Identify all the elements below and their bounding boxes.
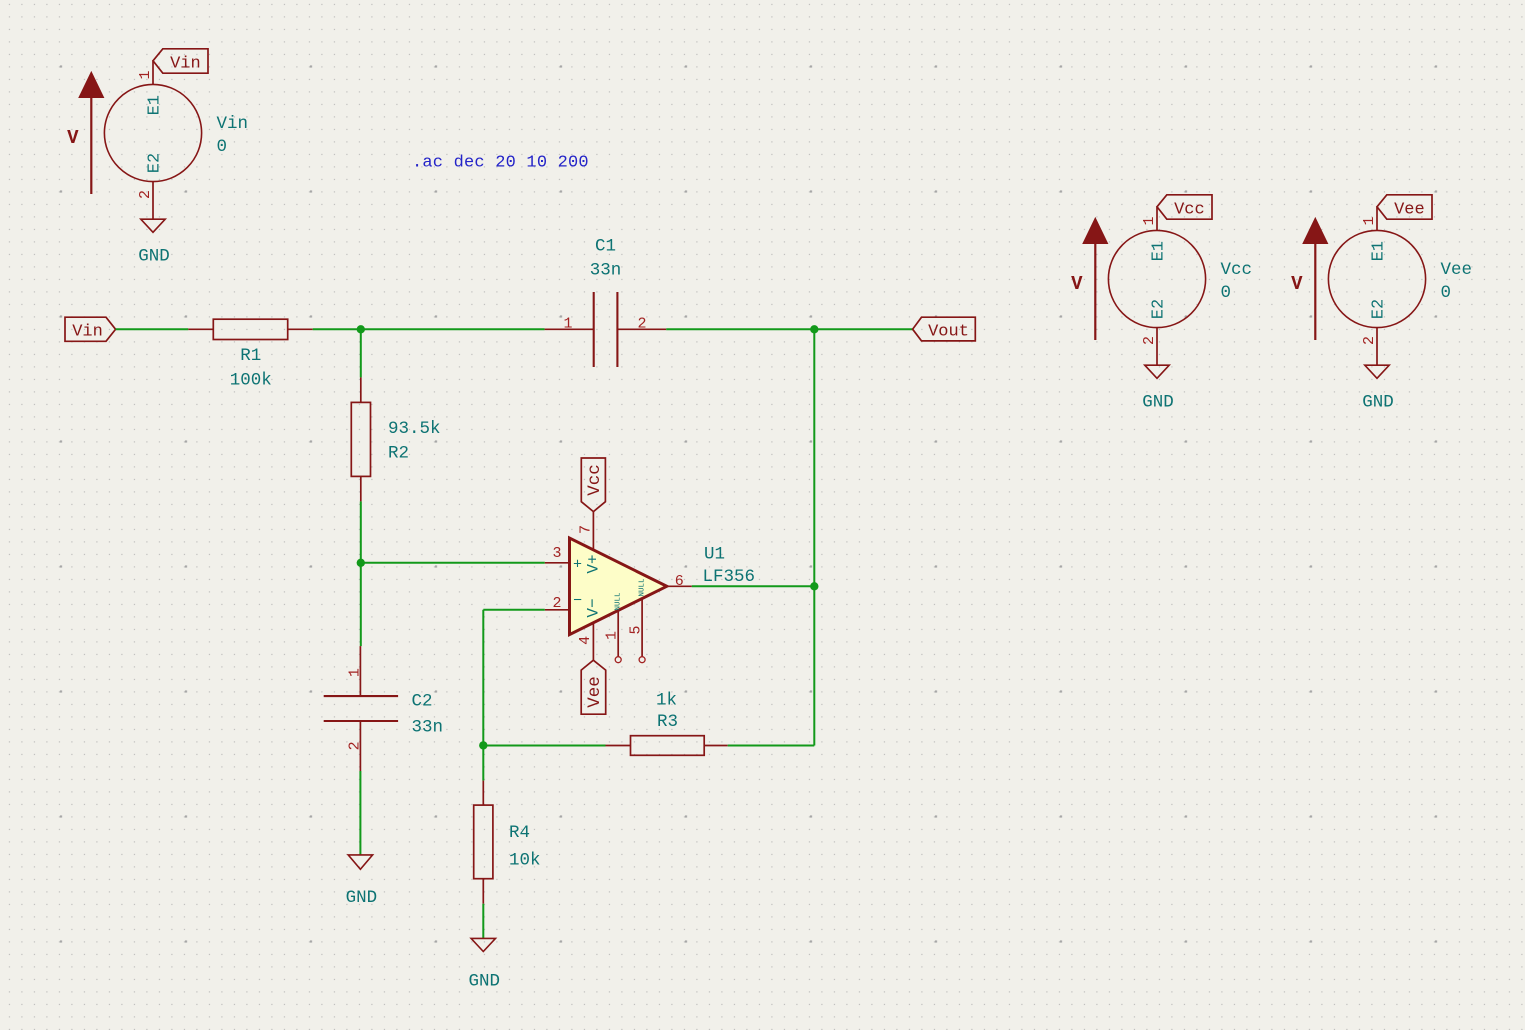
label LF356 [703, 567, 756, 587]
label 10k [509, 851, 541, 871]
resistor R2 [351, 377, 370, 501]
resistor R4 [474, 781, 493, 904]
simulation directive text [412, 154, 589, 173]
svg-text:Vin: Vin [217, 114, 249, 134]
C2 pin 2 number [347, 741, 364, 750]
svg-text:100k: 100k [230, 370, 272, 390]
wire node C to R4 [482, 745, 484, 780]
global label Vout (output flag) [913, 317, 976, 341]
voltage source Vin pin 1 [137, 60, 154, 84]
C2 pin 1 number [347, 668, 364, 677]
svg-text:1: 1 [604, 631, 621, 640]
svg-text:.ac dec 20 10 200: .ac dec 20 10 200 [412, 154, 589, 173]
value field 0 [1221, 283, 1232, 303]
label 33n (C1) [590, 261, 622, 281]
svg-text:GND: GND [469, 972, 501, 992]
svg-text:−: − [573, 593, 582, 610]
label 1k [656, 690, 677, 710]
junction node C [479, 741, 487, 749]
svg-text:2: 2 [1141, 336, 1158, 345]
svg-text:33n: 33n [590, 261, 622, 281]
C1 pin 2 number [637, 315, 646, 332]
value field 0 [1441, 283, 1452, 303]
svg-text:LF356: LF356 [703, 567, 756, 587]
wire opamp out to vertical [692, 585, 815, 587]
svg-text:V−: V− [585, 598, 603, 617]
arrow letter V [67, 127, 79, 149]
label 93.5k [388, 419, 441, 439]
svg-text:R4: R4 [509, 823, 530, 843]
reference field Vin [217, 114, 249, 134]
svg-text:Vee: Vee [1441, 260, 1473, 280]
wire vertical output node [813, 329, 815, 745]
arrow letter V [1291, 273, 1303, 295]
svg-text:E2: E2 [1150, 299, 1169, 319]
svg-text:C2: C2 [412, 692, 433, 712]
svg-text:1: 1 [1141, 216, 1158, 225]
svg-text:Vcc: Vcc [1174, 201, 1205, 220]
svg-text:GND: GND [1362, 393, 1394, 413]
voltage source Vee (symbol circle) [1328, 230, 1425, 327]
svg-text:Vout: Vout [928, 323, 969, 342]
label R4 [509, 823, 530, 843]
svg-text:1: 1 [137, 70, 154, 79]
svg-text:1: 1 [1361, 216, 1378, 225]
svg-text:E1: E1 [1370, 241, 1389, 261]
svg-text:33n: 33n [412, 718, 444, 738]
voltage arrow of Vin [79, 72, 104, 194]
op-amp - input marker [573, 593, 582, 610]
svg-text:Vin: Vin [170, 55, 201, 74]
reference field Vcc [1221, 260, 1253, 280]
svg-text:1: 1 [347, 668, 364, 677]
svg-text:E2: E2 [1370, 299, 1389, 319]
voltage source Vcc pin 1 [1141, 206, 1158, 230]
pin name E1 [1150, 241, 1169, 261]
svg-text:NULL: NULL [615, 592, 623, 611]
wire R2 to node B [360, 501, 362, 562]
svg-text:GND: GND [138, 247, 170, 267]
label 100k [230, 370, 272, 390]
ground label GND (C2) [346, 888, 378, 908]
svg-text:V: V [1291, 273, 1303, 295]
label C2 [412, 692, 433, 712]
op-amp pin 1 (NULL) [604, 610, 622, 662]
global label Vee (flag) [1377, 195, 1432, 220]
junction node B [357, 559, 365, 567]
C1 pin 1 number [563, 315, 572, 332]
svg-text:0: 0 [1221, 283, 1232, 303]
svg-text:Vee: Vee [585, 676, 605, 708]
svg-text:2: 2 [552, 595, 561, 612]
label 33n (C2) [412, 718, 444, 738]
capacitor C2 [324, 646, 398, 771]
op-amp U1 body [570, 538, 667, 635]
svg-text:GND: GND [346, 888, 378, 908]
svg-text:0: 0 [1441, 283, 1452, 303]
svg-text:Vin: Vin [72, 323, 103, 342]
label R2 [388, 443, 409, 463]
ground net label GND [138, 247, 170, 267]
voltage arrow of Vee [1303, 218, 1328, 340]
svg-text:2: 2 [137, 190, 154, 199]
junction node A [357, 325, 365, 333]
wire R3 to output vertical [728, 745, 815, 747]
value field 0 [217, 137, 228, 157]
label C1 [595, 236, 616, 256]
svg-text:NULL: NULL [639, 578, 647, 597]
op-amp pin 7 (V+) [578, 512, 595, 550]
wire C2 to ground [359, 771, 361, 855]
wire Vin to R1 [116, 328, 189, 330]
voltage source Vcc (symbol circle) [1108, 230, 1205, 327]
op-amp V- pin name [585, 598, 603, 617]
svg-text:E1: E1 [1150, 241, 1169, 261]
ground symbol below Vcc [1145, 365, 1169, 378]
svg-text:V: V [67, 127, 79, 149]
op-amp pin 5 (NULL) [628, 598, 646, 662]
svg-text:Vee: Vee [1394, 201, 1425, 220]
ground net label GND [1362, 393, 1394, 413]
svg-text:V+: V+ [585, 554, 603, 573]
ground symbol below C2 [348, 855, 372, 869]
junction node Vout top [810, 325, 818, 333]
pin name E2 [1370, 299, 1389, 319]
ground symbol below R4 [471, 938, 495, 951]
voltage arrow of Vcc [1083, 218, 1108, 340]
capacitor C1 [545, 292, 667, 367]
voltage source Vee pin 1 [1361, 206, 1378, 230]
op-amp pin 3 (+) [545, 545, 570, 563]
svg-text:C1: C1 [595, 236, 616, 256]
svg-text:6: 6 [675, 573, 684, 590]
svg-text:93.5k: 93.5k [388, 419, 441, 439]
wire node B down to C2 [360, 563, 362, 646]
op-amp pin 6 (out) [667, 573, 692, 590]
svg-text:R2: R2 [388, 443, 409, 463]
voltage source Vin pin 2 [137, 182, 154, 220]
svg-text:4: 4 [577, 636, 594, 645]
reference field Vee [1441, 260, 1473, 280]
op-amp + input marker [573, 557, 582, 574]
label R3 [657, 712, 678, 732]
svg-text:10k: 10k [509, 851, 541, 871]
arrow letter V [1071, 273, 1083, 295]
svg-text:0: 0 [217, 137, 228, 157]
global label Vee (op-amp supply) [581, 660, 606, 714]
voltage source Vcc pin 2 [1141, 328, 1158, 366]
label U1 [704, 545, 725, 565]
svg-text:R1: R1 [240, 346, 261, 366]
resistor R1 [188, 319, 312, 339]
svg-text:2: 2 [1361, 336, 1378, 345]
pin name E2 [146, 153, 165, 173]
op-amp NULL pin name 5 [639, 578, 647, 597]
voltage source Vee pin 2 [1361, 328, 1378, 366]
svg-text:3: 3 [552, 545, 561, 562]
svg-text:V: V [1071, 273, 1083, 295]
svg-text:GND: GND [1142, 393, 1174, 413]
global label Vcc (flag) [1157, 195, 1212, 220]
junction output node [810, 582, 818, 590]
op-amp pin 2 (-) [545, 595, 570, 612]
wire node C to R3 [483, 745, 605, 747]
pin name E1 [1370, 241, 1389, 261]
voltage source Vin (symbol circle) [104, 84, 201, 181]
svg-text:R3: R3 [657, 712, 678, 732]
pin name E1 [146, 95, 165, 115]
pin name E2 [1150, 299, 1169, 319]
wire R1 to C1 with node A [313, 328, 545, 330]
svg-text:7: 7 [578, 525, 595, 534]
svg-text:2: 2 [347, 741, 364, 750]
global label Vin (input flag) [65, 317, 116, 341]
wire inverting down [482, 610, 484, 746]
svg-text:U1: U1 [704, 545, 725, 565]
wire node B to opamp + [361, 562, 545, 564]
op-amp V+ pin name [585, 554, 603, 573]
global label Vin (flag) [153, 49, 208, 74]
svg-text:Vcc: Vcc [585, 464, 605, 496]
global label Vcc (op-amp supply) [581, 458, 605, 512]
ground symbol below Vee [1365, 365, 1389, 378]
resistor R3 [606, 736, 728, 756]
wire inverting input [483, 609, 545, 611]
svg-text:1k: 1k [656, 690, 677, 710]
wire C1 to Vout [666, 328, 912, 330]
ground net label GND [1142, 393, 1174, 413]
svg-text:E2: E2 [146, 153, 165, 173]
op-amp NULL pin name 1 [615, 592, 623, 611]
wire node A to R2 [360, 329, 362, 377]
svg-text:E1: E1 [146, 95, 165, 115]
svg-text:5: 5 [628, 625, 645, 634]
svg-text:2: 2 [637, 315, 646, 332]
op-amp pin 4 (V-) [577, 623, 594, 661]
svg-text:Vcc: Vcc [1221, 260, 1253, 280]
wire R4 to ground [482, 904, 484, 939]
ground symbol below Vin [141, 219, 165, 232]
label R1 [240, 346, 261, 366]
svg-text:1: 1 [563, 315, 572, 332]
ground label GND (R4) [469, 972, 501, 992]
svg-text:+: + [573, 557, 582, 574]
